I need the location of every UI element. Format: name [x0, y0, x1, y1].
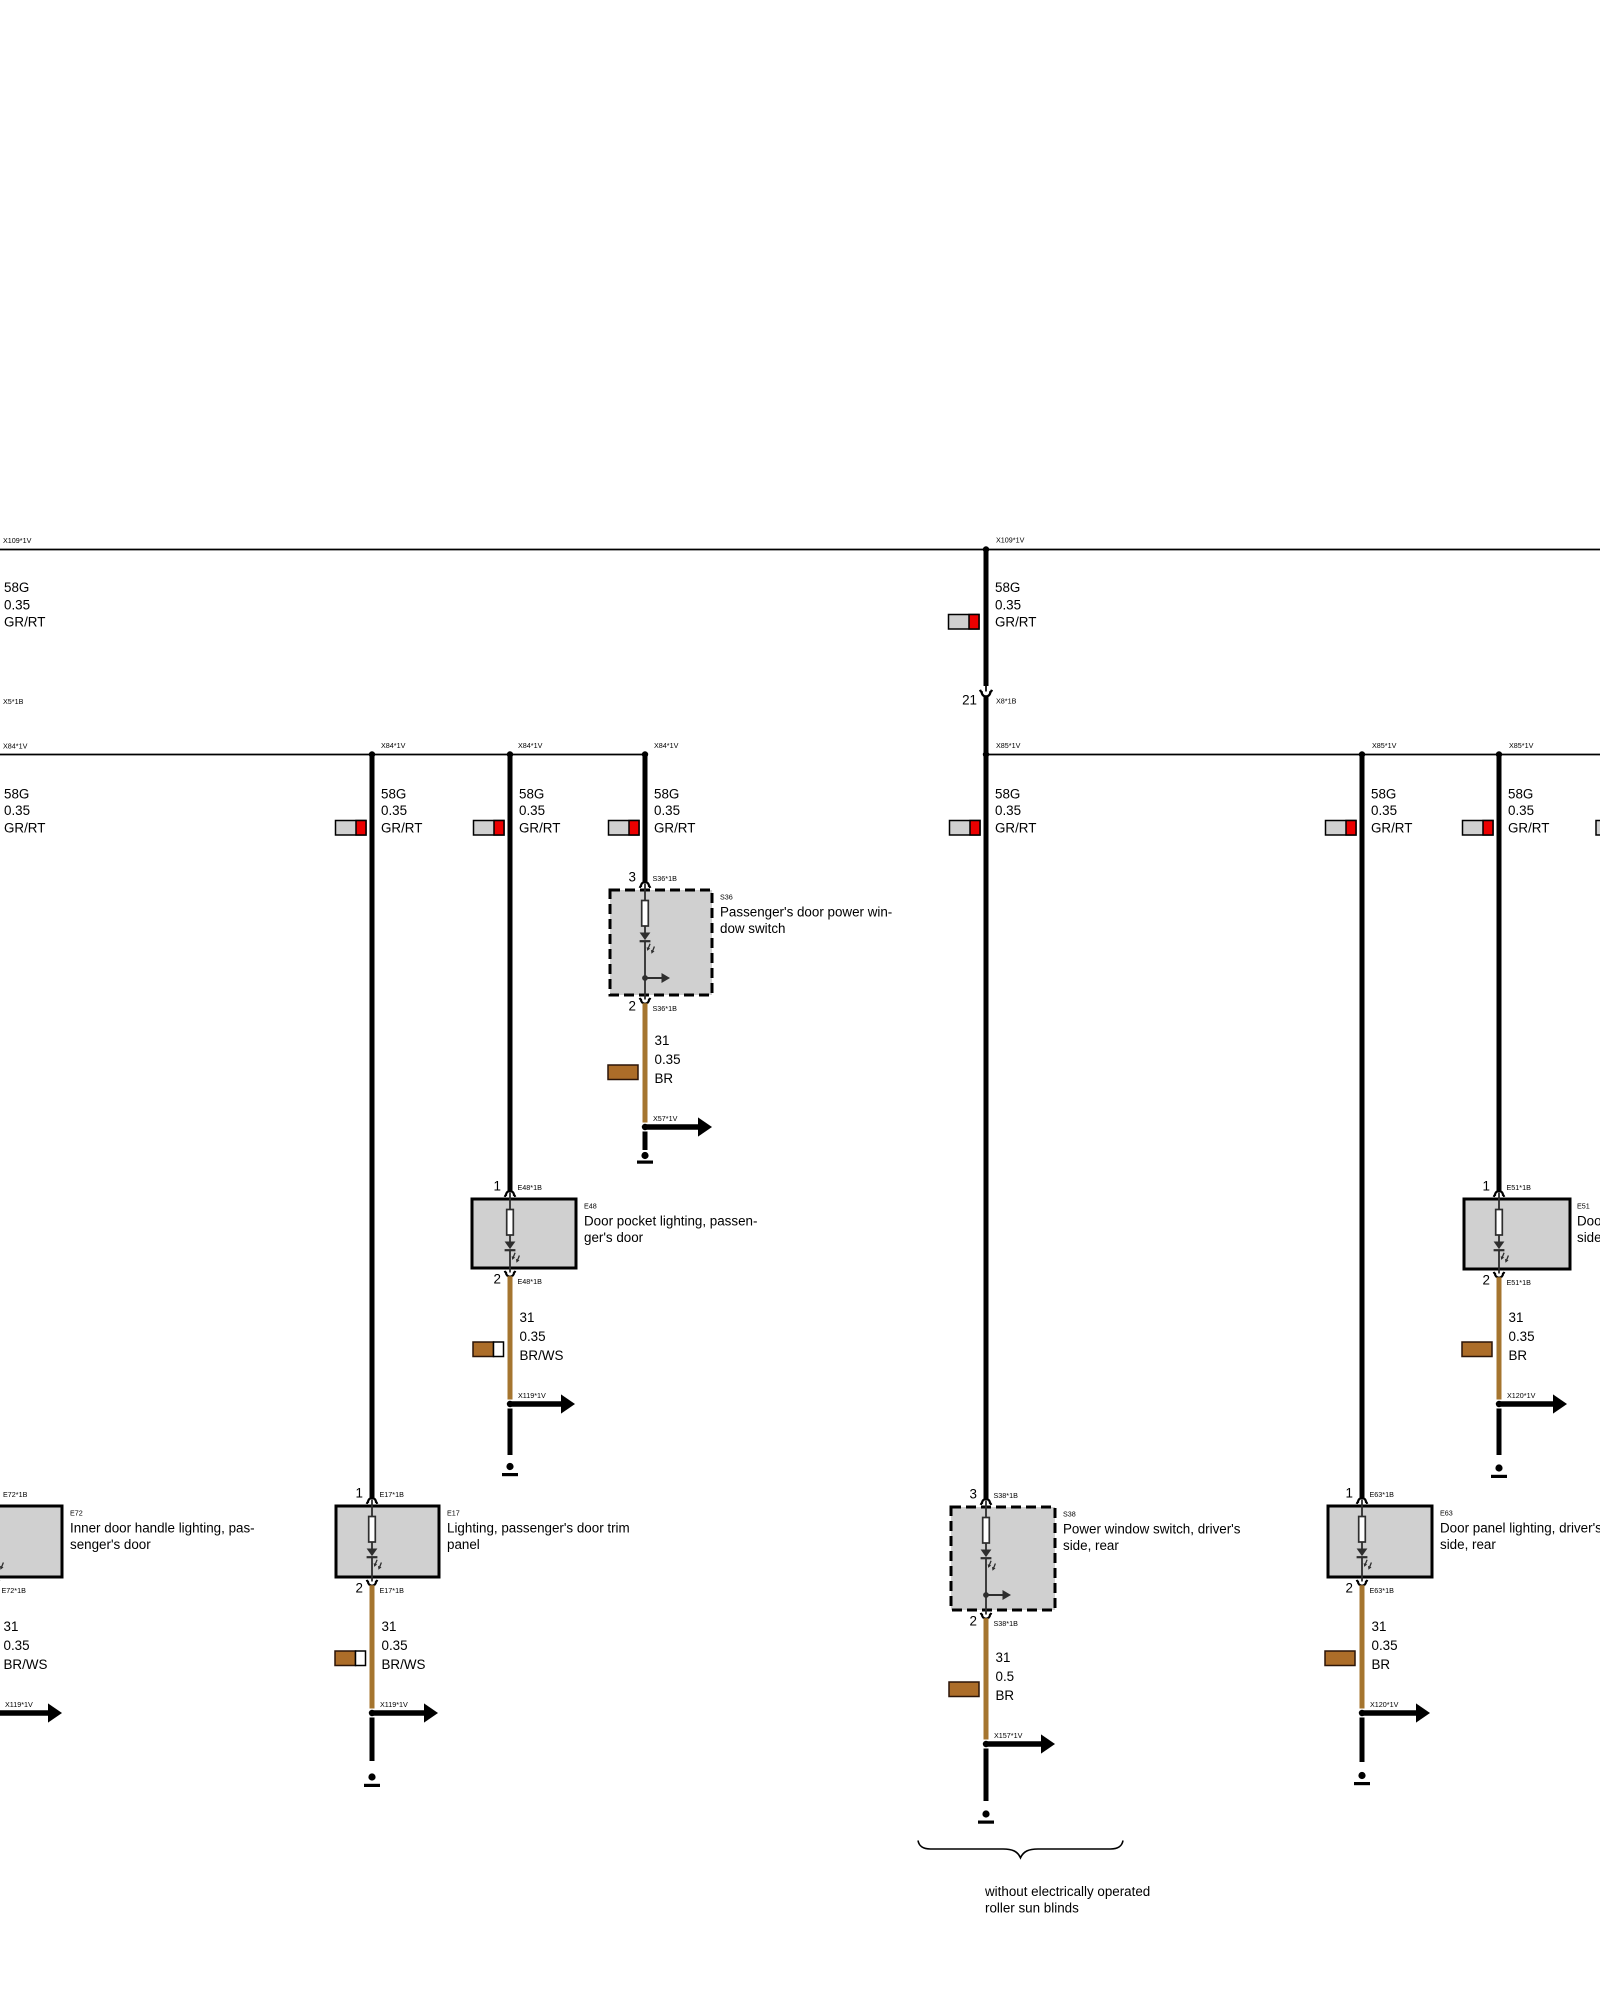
svg-text:0.35: 0.35: [519, 803, 545, 818]
internal lead wire E48: [509, 1193, 511, 1273]
LED in S36: [640, 933, 657, 955]
svg-text:GR/RT: GR/RT: [654, 821, 695, 836]
svg-text:X120*1V: X120*1V: [1370, 1700, 1399, 1709]
LED in E51: [1494, 1242, 1511, 1264]
svg-text:S36*1B: S36*1B: [653, 874, 678, 883]
svg-text:3: 3: [629, 870, 636, 885]
colour code BR/WS at E48 ground wire: [473, 1342, 504, 1357]
node X157*1V junction at S38: [983, 1741, 989, 1747]
svg-text:BR/WS: BR/WS: [382, 1657, 426, 1672]
svg-text:58G: 58G: [995, 580, 1020, 595]
svg-text:0.35: 0.35: [381, 803, 407, 818]
svg-text:31: 31: [655, 1033, 670, 1048]
value label 58G 0.35 GR/RT at wire S38: [995, 787, 1036, 836]
svg-text:0.35: 0.35: [1509, 1329, 1535, 1344]
resistor in E17: [369, 1517, 376, 1543]
svg-text:E72*1B: E72*1B: [3, 1490, 28, 1499]
switch S36 box: [610, 890, 712, 995]
svg-text:1: 1: [1346, 1486, 1353, 1501]
bus X85*1V: [986, 754, 1600, 756]
svg-text:X119*1V: X119*1V: [380, 1700, 408, 1709]
svg-text:E51*1B: E51*1B: [1507, 1183, 1532, 1192]
value label 31 0.35 BR at E51 ground wire: [1509, 1310, 1535, 1363]
svg-text:0.35: 0.35: [4, 1638, 30, 1653]
svg-text:0.35: 0.35: [995, 803, 1021, 818]
svg-text:2: 2: [1346, 1581, 1353, 1596]
svg-text:Door pocket lighting, driver's: Door pocket lighting, driver's: [1577, 1214, 1600, 1229]
internal lead wire S36: [644, 884, 646, 1000]
svg-text:X84*1V: X84*1V: [518, 741, 543, 750]
svg-text:BR: BR: [655, 1071, 674, 1086]
svg-text:GR/RT: GR/RT: [519, 821, 560, 836]
svg-text:S36: S36: [720, 893, 733, 902]
value label 31 0.35 BR at S36 ground wire: [655, 1033, 681, 1086]
colour code GR/RT at wire S38: [950, 821, 981, 836]
wire below junction at E63: [1360, 1718, 1365, 1763]
svg-text:Inner door handle lighting, pa: Inner door handle lighting, pas-: [70, 1521, 255, 1536]
svg-text:X84*1V: X84*1V: [3, 742, 28, 751]
description text E72: [70, 1521, 255, 1552]
pin 1 connector E63*1B top of E63: [1357, 1498, 1367, 1504]
value label 58G 0.35 GR/RT at wire E51: [1508, 787, 1549, 836]
svg-text:2: 2: [494, 1272, 501, 1287]
bus X84*1V: [0, 754, 645, 756]
svg-text:GR/RT: GR/RT: [4, 821, 45, 836]
lamp E63 box: [1328, 1506, 1432, 1577]
svg-text:E48*1B: E48*1B: [518, 1277, 543, 1286]
colour code GR/RT at wire E51: [1463, 821, 1494, 836]
svg-text:X109*1V: X109*1V: [3, 536, 32, 545]
pin 1 connector E51*1B top of E51: [1494, 1191, 1504, 1197]
svg-text:31: 31: [520, 1310, 535, 1325]
node X85*1V at wire E51: [1496, 751, 1502, 757]
svg-text:Passenger's door power win-: Passenger's door power win-: [720, 905, 892, 920]
svg-text:side, rear: side, rear: [1577, 1230, 1600, 1245]
connector arrow X119*1V at E72: [0, 1703, 62, 1722]
svg-text:E17*1B: E17*1B: [380, 1586, 405, 1595]
colour code BR at E51 ground wire: [1462, 1342, 1492, 1357]
connector arrow X120*1V at E63: [1363, 1703, 1430, 1722]
LED in E17: [367, 1549, 384, 1571]
colour code GR/RT at X8 wire: [949, 615, 980, 630]
resistor in S38: [983, 1518, 990, 1544]
colour code GR/RT at wire S36: [609, 821, 640, 836]
svg-text:58G: 58G: [381, 787, 406, 802]
svg-text:E48: E48: [584, 1202, 597, 1211]
svg-text:X57*1V: X57*1V: [653, 1114, 678, 1123]
svg-text:S36*1B: S36*1B: [653, 1004, 678, 1013]
svg-text:E63*1B: E63*1B: [1370, 1586, 1395, 1595]
svg-text:BR/WS: BR/WS: [4, 1657, 48, 1672]
svg-text:0.35: 0.35: [1371, 803, 1397, 818]
svg-text:X109*1V: X109*1V: [996, 536, 1025, 545]
svg-text:GR/RT: GR/RT: [1371, 821, 1412, 836]
value label 58G 0.35 GR/RT left edge wire (off-canvas): [4, 580, 45, 630]
node X84*1V at wire E17: [369, 751, 375, 757]
svg-text:ger's door: ger's door: [584, 1230, 644, 1245]
internal lead wire E51: [1498, 1193, 1500, 1274]
value label 58G 0.35 GR/RT at wire E63: [1371, 787, 1412, 836]
connector arrow X157*1V at S38: [987, 1734, 1055, 1753]
svg-text:Power window switch, driver's: Power window switch, driver's: [1063, 1522, 1241, 1537]
svg-text:Door pocket lighting, passen-: Door pocket lighting, passen-: [584, 1214, 757, 1229]
svg-text:E51*1B: E51*1B: [1507, 1278, 1532, 1287]
svg-text:GR/RT: GR/RT: [995, 615, 1036, 630]
colour code BR at S38 ground wire: [949, 1682, 979, 1697]
svg-text:S38*1B: S38*1B: [994, 1491, 1019, 1500]
svg-text:X85*1V: X85*1V: [1372, 741, 1397, 750]
colour code GR/RT at wire E48: [474, 821, 505, 836]
wire 31 BR/WS ground wire from E17: [370, 1585, 375, 1708]
ground at E63: [1354, 1772, 1370, 1785]
wire 58G from bus to E48: [508, 755, 513, 1192]
svg-text:S38: S38: [1063, 1510, 1076, 1519]
pin 3 connector S36*1B top of S36: [640, 882, 650, 888]
svg-text:side, rear: side, rear: [1063, 1538, 1119, 1553]
connector arrow X119*1V at E48: [511, 1394, 575, 1413]
description text S36: [720, 905, 892, 936]
lamp E51 box: [1464, 1199, 1570, 1269]
ground at E17: [364, 1773, 380, 1787]
svg-text:BR: BR: [996, 1688, 1015, 1703]
svg-text:2: 2: [1483, 1273, 1490, 1288]
ground at E51: [1491, 1464, 1507, 1478]
svg-text:2: 2: [356, 1581, 363, 1596]
pin 2 connector E63*1B bottom of E63: [1357, 1580, 1367, 1586]
svg-text:31: 31: [1509, 1310, 1524, 1325]
value label 31 0.35 BR at E63 ground wire: [1372, 1619, 1398, 1672]
node X119*1V junction at E17: [369, 1710, 375, 1716]
connector arrow X57*1V at S36: [646, 1117, 712, 1136]
wire below junction at E48: [508, 1409, 513, 1456]
svg-text:E51: E51: [1577, 1202, 1590, 1211]
description text E17: [447, 1521, 630, 1552]
svg-text:0.35: 0.35: [4, 803, 30, 818]
svg-text:panel: panel: [447, 1537, 480, 1552]
wire 31 BR ground wire from E51: [1497, 1277, 1502, 1399]
svg-text:dow switch: dow switch: [720, 921, 786, 936]
svg-text:X85*1V: X85*1V: [1509, 741, 1534, 750]
pin 2 connector S36*1B bottom of S36: [640, 998, 650, 1004]
svg-text:0.35: 0.35: [520, 1329, 546, 1344]
svg-text:BR: BR: [1509, 1348, 1528, 1363]
svg-text:21: 21: [962, 693, 977, 708]
pin 1 connector E48*1B top of E48: [505, 1191, 515, 1197]
svg-text:58G: 58G: [4, 580, 29, 595]
svg-text:0.35: 0.35: [655, 1052, 681, 1067]
colour code BR at S36 ground wire: [608, 1065, 638, 1080]
svg-text:E17: E17: [447, 1509, 460, 1518]
pin 2 connector E17*1B bottom of E17: [367, 1580, 377, 1586]
value label 31 0.35 BR/WS at E17 ground wire: [382, 1619, 426, 1672]
wire 58G from bus to E51: [1497, 755, 1502, 1192]
svg-text:GR/RT: GR/RT: [1508, 821, 1549, 836]
resistor in E48: [507, 1210, 514, 1236]
colour code GR/RT at wire E17: [336, 821, 367, 836]
wire 58G from X109 bus to connector X8: [984, 550, 989, 687]
node X57*1V junction at S36: [642, 1124, 648, 1130]
svg-text:X84*1V: X84*1V: [654, 741, 679, 750]
svg-text:X8*1B: X8*1B: [996, 697, 1017, 706]
switch actuation arrow S38: [983, 1590, 1011, 1600]
pin 2 connector S38*1B bottom of S38: [981, 1613, 991, 1619]
colour code BR/WS at E17 ground wire: [335, 1651, 366, 1666]
colour code GR/RT partial at right edge (off-canvas wire): [1596, 821, 1600, 836]
value label 31 0.35 BR/WS at E72 ground wire: [4, 1619, 48, 1672]
svg-text:58G: 58G: [995, 787, 1020, 802]
svg-text:E63*1B: E63*1B: [1370, 1490, 1395, 1499]
svg-text:side, rear: side, rear: [1440, 1537, 1496, 1552]
svg-text:Lighting, passenger's door tri: Lighting, passenger's door trim: [447, 1521, 630, 1536]
wire below junction at S36: [643, 1132, 648, 1151]
svg-text:31: 31: [996, 1650, 1011, 1665]
svg-text:GR/RT: GR/RT: [4, 615, 45, 630]
wire below junction at S38: [984, 1749, 989, 1802]
value label 58G 0.35 GR/RT left edge row2 (off-canvas wire): [4, 787, 45, 836]
pin 1 connector E17*1B top of E17: [367, 1498, 377, 1504]
value label 58G 0.35 GR/RT at wire E17: [381, 787, 422, 836]
svg-text:E72: E72: [70, 1509, 83, 1518]
svg-text:31: 31: [1372, 1619, 1387, 1634]
svg-text:2: 2: [970, 1614, 977, 1629]
node X109*1V junction: [983, 546, 989, 552]
svg-text:1: 1: [1483, 1179, 1490, 1194]
node X84*1V at wire S36: [642, 751, 648, 757]
lamp E72 box: [0, 1506, 62, 1577]
value label 58G 0.35 GR/RT at X8 wire: [995, 580, 1036, 630]
description text E51: [1577, 1214, 1600, 1245]
svg-text:31: 31: [4, 1619, 19, 1634]
LED in E48: [505, 1242, 522, 1264]
LED in S38: [981, 1550, 998, 1572]
svg-text:X5*1B: X5*1B: [3, 697, 24, 706]
node X120*1V junction at E51: [1496, 1401, 1502, 1407]
svg-text:0.35: 0.35: [4, 598, 30, 613]
value label 58G 0.35 GR/RT at wire S36: [654, 787, 695, 836]
ground at S36: [637, 1152, 653, 1164]
wire below junction at E17: [370, 1718, 375, 1762]
svg-text:Door panel lighting, driver's: Door panel lighting, driver's: [1440, 1521, 1600, 1536]
connector X8*1B pin symbol: [980, 686, 992, 696]
svg-text:X85*1V: X85*1V: [996, 741, 1021, 750]
wire 31 BR/WS ground wire from E48: [508, 1276, 513, 1399]
value label 58G 0.35 GR/RT at wire E48: [519, 787, 560, 836]
svg-text:BR: BR: [1372, 1657, 1391, 1672]
svg-text:X157*1V: X157*1V: [994, 1731, 1023, 1740]
svg-text:1: 1: [356, 1486, 363, 1501]
wire 31 BR ground wire from S36: [643, 1003, 648, 1122]
svg-text:without electrically operated: without electrically operated: [984, 1884, 1150, 1899]
svg-text:GR/RT: GR/RT: [381, 821, 422, 836]
wire from connector X8 to X85 bus: [984, 696, 989, 755]
wire 58G from bus to E17: [370, 755, 375, 1499]
LED in E72: [0, 1549, 5, 1571]
ground at S38: [978, 1810, 994, 1823]
svg-text:E63: E63: [1440, 1509, 1453, 1518]
resistor in S36: [642, 901, 649, 927]
colour code BR at E63 ground wire: [1325, 1651, 1355, 1666]
lamp E17 box: [336, 1506, 439, 1577]
bus X109*1V: [0, 549, 1600, 551]
svg-text:X84*1V: X84*1V: [381, 741, 406, 750]
colour code GR/RT at wire E63: [1326, 821, 1357, 836]
svg-text:roller sun blinds: roller sun blinds: [985, 1901, 1079, 1916]
switch S38 box: [951, 1507, 1055, 1610]
node X85*1V at wire E63: [1359, 751, 1365, 757]
svg-text:58G: 58G: [519, 787, 544, 802]
svg-text:GR/RT: GR/RT: [995, 821, 1036, 836]
connector arrow X120*1V at E51: [1500, 1394, 1567, 1413]
wire below junction at E51: [1497, 1409, 1502, 1456]
connector arrow X119*1V at E17: [373, 1703, 438, 1722]
svg-text:X119*1V: X119*1V: [5, 1700, 33, 1709]
svg-text:E17*1B: E17*1B: [380, 1490, 405, 1499]
svg-text:58G: 58G: [654, 787, 679, 802]
svg-text:3: 3: [970, 1487, 977, 1502]
svg-text:X119*1V: X119*1V: [518, 1391, 546, 1400]
svg-text:2: 2: [629, 999, 636, 1014]
svg-text:0.35: 0.35: [1508, 803, 1534, 818]
description text E48: [584, 1214, 757, 1245]
svg-text:0.35: 0.35: [654, 803, 680, 818]
node X119*1V junction at E48: [507, 1401, 513, 1407]
svg-text:E72*1B: E72*1B: [2, 1586, 27, 1595]
svg-text:0.35: 0.35: [995, 598, 1021, 613]
pin 2 connector E51*1B bottom of E51: [1494, 1272, 1504, 1278]
internal lead wire S38: [985, 1501, 987, 1615]
node X120*1V junction at E63: [1359, 1710, 1365, 1716]
brace without roller sun blinds group: [918, 1841, 1123, 1858]
svg-text:0.5: 0.5: [996, 1669, 1015, 1684]
svg-text:BR/WS: BR/WS: [520, 1348, 564, 1363]
wire 31 BR ground wire from S38: [984, 1618, 989, 1739]
svg-text:E48*1B: E48*1B: [518, 1183, 543, 1192]
svg-text:X120*1V: X120*1V: [1507, 1391, 1536, 1400]
wire 58G from bus to S38: [984, 755, 989, 1500]
description text S38: [1063, 1522, 1241, 1553]
ground at E48: [502, 1463, 518, 1476]
value label 31 0.35 BR/WS at E48 ground wire: [520, 1310, 564, 1363]
node X85*1V at X8 wire: [983, 751, 989, 757]
wire 31 BR ground wire from E63: [1360, 1585, 1365, 1708]
pin 3 connector S38*1B top of S38: [981, 1499, 991, 1505]
description text E63: [1440, 1521, 1600, 1552]
svg-text:58G: 58G: [1371, 787, 1396, 802]
internal lead wire E63: [1361, 1500, 1363, 1582]
lamp E48 box: [472, 1199, 576, 1268]
svg-text:58G: 58G: [1508, 787, 1533, 802]
node X84*1V at wire E48: [507, 751, 513, 757]
pin 2 connector E48*1B bottom of E48: [505, 1271, 515, 1277]
svg-text:S38*1B: S38*1B: [994, 1619, 1019, 1628]
LED in E63: [1357, 1549, 1374, 1571]
switch actuation arrow S36: [642, 973, 670, 983]
svg-text:31: 31: [382, 1619, 397, 1634]
resistor in E63: [1359, 1517, 1366, 1543]
svg-text:0.35: 0.35: [382, 1638, 408, 1653]
value label 31 0.5 BR at S38 ground wire: [996, 1650, 1015, 1703]
svg-text:senger's door: senger's door: [70, 1537, 151, 1552]
svg-text:0.35: 0.35: [1372, 1638, 1398, 1653]
wire 58G from bus to E63: [1360, 755, 1365, 1499]
note text without electrically operated roller sun blinds: [984, 1884, 1150, 1916]
internal lead wire E17: [371, 1500, 373, 1582]
wire 58G from bus to S36: [643, 755, 648, 883]
svg-text:58G: 58G: [4, 787, 29, 802]
svg-text:1: 1: [494, 1179, 501, 1194]
resistor in E51: [1496, 1210, 1503, 1236]
